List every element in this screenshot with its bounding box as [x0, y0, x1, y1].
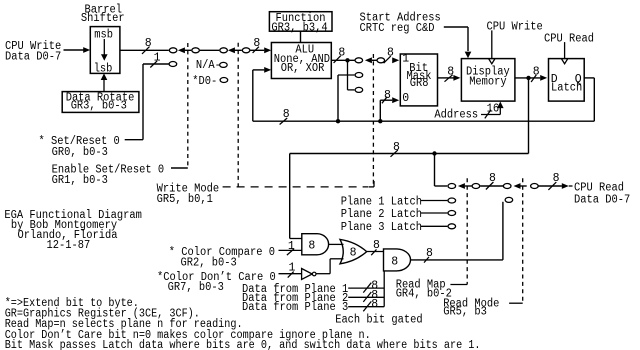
wire latch bus to switch — [337, 75, 339, 121]
svg-text:N/A-: N/A- — [196, 59, 221, 72]
arrow left — [228, 47, 235, 53]
junction dot — [336, 119, 340, 123]
wire plane 2 data — [348, 296, 384, 298]
bus width slash 8 — [334, 56, 341, 63]
arrow left — [178, 47, 185, 53]
bus width slash 8 — [384, 56, 391, 63]
switch contact oval plane 1 — [448, 198, 456, 203]
bit mask box — [400, 54, 437, 106]
svg-text:OR, XOR: OR, XOR — [281, 62, 325, 75]
svg-text:8: 8 — [391, 255, 398, 268]
switch contact oval — [169, 48, 177, 53]
bus width slash 8 — [391, 150, 398, 157]
switch contact oval — [377, 58, 385, 63]
wire latch Q output down to bus — [584, 77, 594, 79]
ALU box U1 — [271, 43, 331, 79]
svg-text:lsb: lsb — [94, 62, 113, 75]
svg-text:GR3, b3,4: GR3, b3,4 — [271, 21, 327, 34]
dashed select line 2 — [237, 43, 239, 187]
wire color dont care input — [279, 273, 302, 275]
svg-text:Data D0-7: Data D0-7 — [574, 193, 630, 206]
svg-text:8: 8 — [350, 247, 357, 260]
switch contact oval — [355, 87, 363, 92]
svg-text:8: 8 — [489, 172, 496, 185]
wire inverter output to OR — [316, 273, 330, 275]
switch contact oval — [505, 197, 513, 202]
svg-text:1: 1 — [289, 262, 296, 275]
dashed read mode line — [522, 178, 524, 303]
wire plane 3 latch tap — [421, 225, 448, 227]
inverter gate — [302, 269, 313, 280]
svg-text:GR5, b3: GR5, b3 — [443, 306, 487, 319]
wire latch data into ALU — [253, 69, 264, 71]
junction dot — [432, 151, 436, 155]
svg-text:Bit Mask passes Latch data whe: Bit Mask passes Latch data where bits ar… — [5, 339, 481, 350]
switch contact oval — [220, 48, 228, 53]
arrow right into bit mask — [392, 57, 399, 63]
svg-text:GR3, b0-3: GR3, b0-3 — [71, 99, 127, 112]
wire read map AND output — [411, 259, 503, 261]
svg-text:1: 1 — [402, 53, 409, 66]
svg-text:8: 8 — [553, 172, 560, 185]
switch contact oval — [503, 184, 511, 189]
bus width slash 16 — [485, 110, 491, 119]
svg-text:Plane 3 Latch: Plane 3 Latch — [341, 221, 422, 234]
svg-text:*D0-: *D0- — [192, 75, 217, 88]
svg-text:Shifter: Shifter — [81, 12, 125, 25]
arrow left — [514, 183, 521, 189]
wire — [480, 185, 503, 187]
svg-text:CRTC reg C&D: CRTC reg C&D — [360, 22, 435, 35]
svg-text:8: 8 — [533, 65, 540, 78]
bus width slash 1 — [287, 249, 294, 255]
wire display memory output — [515, 77, 540, 79]
svg-text:8: 8 — [426, 247, 433, 260]
svg-text:8: 8 — [373, 239, 380, 252]
svg-text:GR5, b0,1: GR5, b0,1 — [157, 193, 213, 206]
wire enable set/reset label link — [171, 167, 188, 169]
wire barrel shifter output — [120, 49, 169, 51]
bus width slash 8 — [445, 75, 453, 82]
wire plane 3 data — [348, 306, 384, 308]
svg-text:8: 8 — [338, 47, 345, 60]
bus width slash 8 — [548, 182, 556, 190]
switch contact oval — [192, 48, 200, 53]
wire cpu write strobe — [491, 30, 493, 58]
wire read map label link — [450, 284, 467, 286]
svg-text:8: 8 — [447, 65, 454, 78]
svg-text:12-1-87: 12-1-87 — [47, 239, 91, 252]
arrow right cpu read data — [539, 185, 562, 187]
arrow left — [365, 57, 372, 63]
wire function to ALU — [300, 31, 302, 42]
switch contact oval — [355, 58, 363, 63]
svg-text:Latch: Latch — [551, 81, 582, 94]
bus width slash 8 — [142, 47, 150, 54]
bus width slash 8 — [363, 292, 371, 302]
svg-text:Address: Address — [434, 109, 478, 122]
svg-text:8: 8 — [371, 298, 378, 311]
wire AND output up to read switch — [502, 202, 504, 260]
svg-text:8: 8 — [145, 37, 152, 50]
wire AND to OR — [329, 243, 344, 245]
arrow right into ALU — [264, 47, 271, 53]
svg-text:0: 0 — [402, 92, 409, 105]
svg-text:1: 1 — [288, 240, 295, 253]
wire plane 1 data — [348, 287, 384, 289]
switch contact oval — [531, 184, 539, 189]
svg-text:8: 8 — [384, 89, 391, 102]
wire ALU bypass branch — [347, 60, 349, 90]
bus width slash 8 — [531, 75, 536, 82]
latch data bus — [253, 120, 595, 122]
svg-text:1: 1 — [154, 51, 161, 64]
wire plane 1 latch tap — [421, 200, 448, 202]
arrow right into latch — [540, 75, 547, 81]
svg-text:GR8: GR8 — [410, 77, 429, 90]
bus width slash 8 — [363, 301, 371, 311]
svg-text:Memory: Memory — [469, 76, 507, 89]
dashed select line 3 — [372, 54, 374, 186]
wire OR output — [367, 251, 384, 253]
dashed read map line — [466, 178, 468, 284]
OR gate — [340, 239, 367, 263]
bus width slash 8 — [486, 182, 494, 190]
svg-text:GR0, b0-3: GR0, b0-3 — [52, 146, 108, 159]
wire display data down — [528, 78, 530, 154]
wire into ALU — [250, 49, 264, 51]
plane data bus — [383, 271, 385, 307]
svg-text:CPU Write: CPU Write — [487, 21, 543, 34]
svg-text:8: 8 — [308, 239, 315, 252]
wire start address into display memory — [444, 26, 468, 28]
switch contact oval — [448, 184, 456, 189]
bus width slash 8 — [382, 97, 387, 104]
bus width slash 1 — [288, 272, 294, 278]
svg-text:Plane 1 Latch: Plane 1 Latch — [341, 196, 422, 209]
wire data rotate to barrel shifter — [103, 80, 105, 92]
switch contact oval — [472, 184, 480, 189]
wire set/reset label link — [125, 139, 143, 141]
switch contact oval plane 3 — [448, 224, 456, 229]
bus width slash 1 — [150, 61, 157, 68]
switch contact oval plane 2 — [448, 211, 456, 216]
AND gate read map — [384, 249, 411, 271]
svg-text:Each bit gated: Each bit gated — [335, 313, 423, 326]
svg-text:16: 16 — [487, 102, 500, 115]
wire plane 2 latch tap — [421, 212, 448, 214]
wire read mode label link — [509, 302, 523, 304]
bus width slash 8 — [424, 257, 429, 263]
switch contact oval — [169, 62, 177, 67]
switch contact oval D0 — [220, 78, 228, 83]
wire color compare input — [279, 249, 302, 251]
wire cpu read strobe — [564, 42, 566, 59]
AND gate color compare — [302, 234, 329, 255]
bus width slash 8 — [253, 47, 259, 53]
wire — [200, 49, 219, 51]
wire bit mask output — [438, 77, 454, 79]
svg-text:Plane 2 Latch: Plane 2 Latch — [341, 208, 422, 221]
svg-text:8: 8 — [253, 37, 260, 50]
wire ALU output — [331, 59, 354, 61]
junction dot — [345, 58, 349, 62]
bus width slash 8 — [371, 249, 376, 255]
dashed write mode line — [223, 186, 368, 188]
wire read selector branch — [434, 154, 436, 187]
switch contact oval — [355, 73, 363, 78]
wire latch bus to bit mask 0 — [380, 99, 392, 101]
svg-text:Data D0-7: Data D0-7 — [5, 50, 61, 63]
wire CPU write data into barrel shifter — [64, 49, 85, 51]
data rotate box — [62, 92, 139, 113]
svg-text:Data from Plane 3: Data from Plane 3 — [242, 301, 348, 314]
junction dot — [526, 76, 530, 80]
wire read feed line — [290, 153, 529, 155]
switch contact oval — [242, 48, 250, 53]
svg-text:GR2, b0-3: GR2, b0-3 — [181, 256, 237, 269]
display memory box — [461, 59, 515, 102]
wire address into display memory — [481, 114, 500, 116]
arrow left — [458, 183, 465, 189]
wire compare data input — [290, 238, 302, 240]
svg-text:8: 8 — [393, 141, 400, 154]
latch box U2 — [549, 59, 585, 102]
msb to lsb arrow — [103, 39, 105, 55]
svg-text:8: 8 — [283, 108, 290, 121]
svg-text:GR7, b0-3: GR7, b0-3 — [168, 281, 224, 294]
svg-text:GR1, b0-3: GR1, b0-3 — [52, 174, 108, 187]
bus width slash 8 — [280, 118, 288, 125]
svg-text:8: 8 — [387, 47, 394, 60]
barrel shifter box — [90, 27, 120, 74]
bus width slash 8 — [363, 283, 371, 293]
dashed select line 1 — [187, 43, 189, 168]
svg-text:CPU Read: CPU Read — [544, 32, 594, 45]
switch contact oval N/A — [220, 62, 228, 67]
function box — [269, 12, 332, 32]
wire set/reset tap — [143, 63, 169, 65]
